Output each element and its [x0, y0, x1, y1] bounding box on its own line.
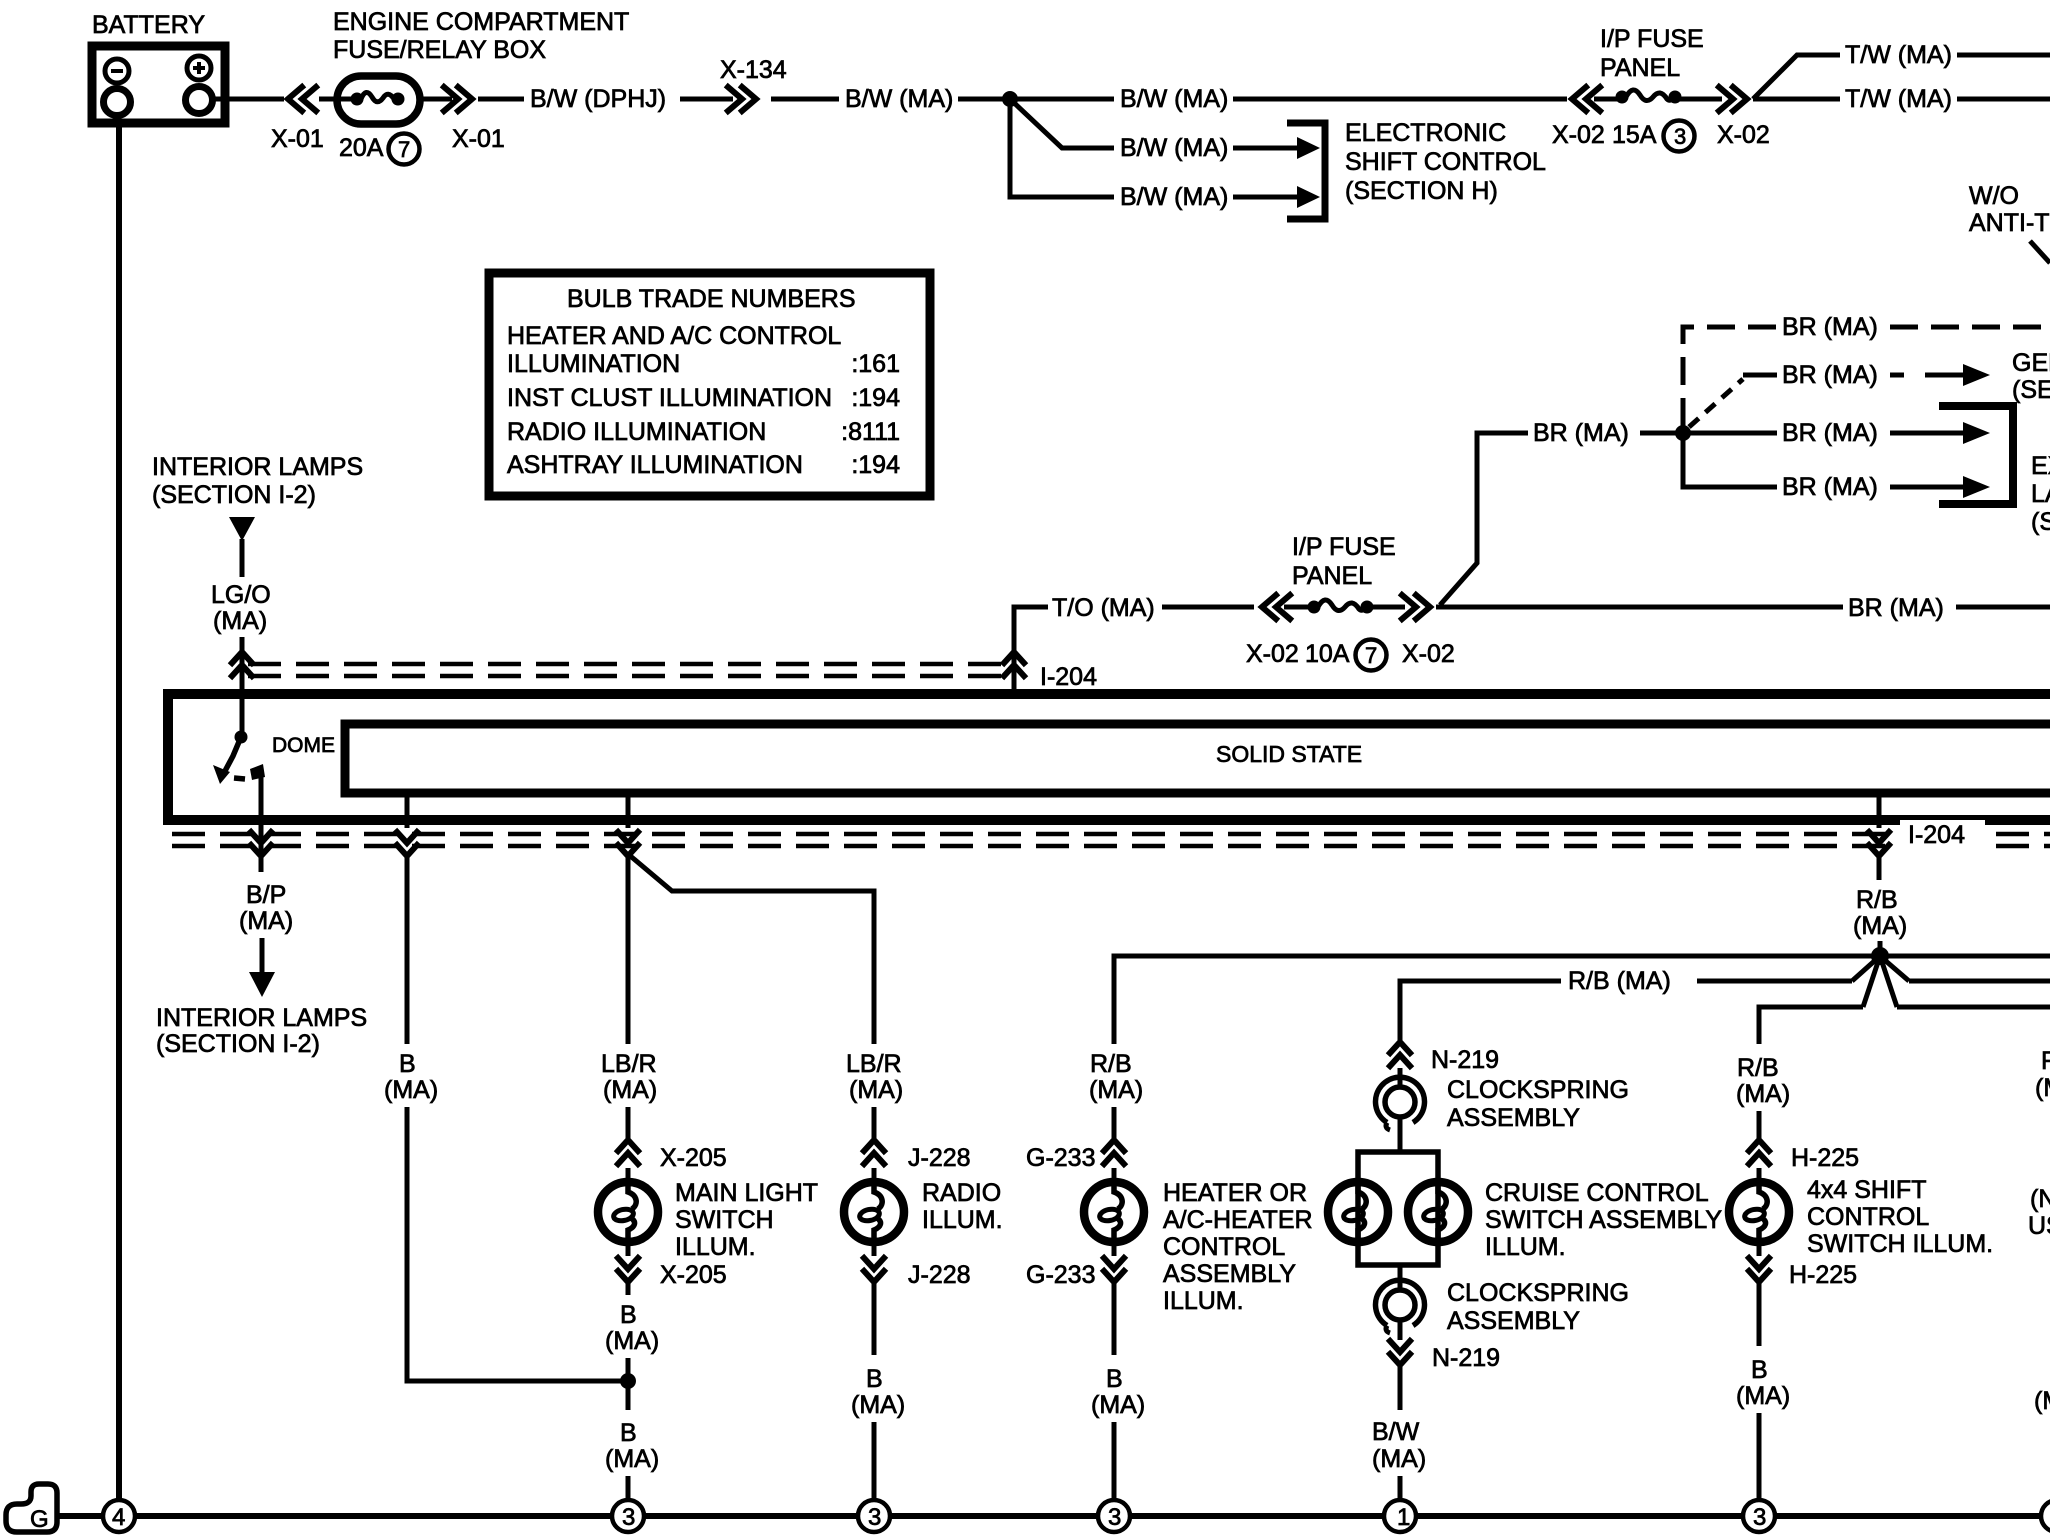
svg-text:CONTROL: CONTROL [1163, 1233, 1285, 1261]
svg-text:3: 3 [1108, 1504, 1121, 1531]
svg-text:BR (MA): BR (MA) [1782, 473, 1878, 501]
ground node 3 (4x4) [1743, 1500, 1775, 1532]
svg-text:T/W (MA): T/W (MA) [1845, 85, 1952, 113]
svg-text:PANEL: PANEL [1600, 54, 1680, 82]
svg-text:GEN: GEN [2012, 349, 2050, 377]
svg-text:DOME: DOME [272, 734, 335, 757]
interior lamp relay outer box [168, 694, 2050, 820]
svg-text:(M: (M [2034, 1387, 2050, 1415]
connector X-205 (bottom) [618, 1258, 638, 1282]
svg-text:G-233: G-233 [1026, 1261, 1095, 1289]
svg-text:B: B [620, 1419, 637, 1447]
wire T/O drop through I-204 [1012, 607, 1017, 692]
svg-text:X-01: X-01 [452, 125, 505, 153]
svg-text:J-228: J-228 [908, 1261, 971, 1289]
svg-text:N-219: N-219 [1431, 1046, 1499, 1074]
svg-text:MAIN LIGHT: MAIN LIGHT [675, 1179, 818, 1207]
wire R/B (MA) branch to 4x4 shift [1759, 1007, 1863, 1044]
connector X-01 (left) [288, 87, 316, 111]
wire B/W (MA) branch row 3 [1010, 99, 1114, 197]
wire R/B (MA) branch to cruise control [1400, 981, 1852, 1040]
cruise control column [1328, 1042, 1722, 1499]
svg-text:G: G [30, 1506, 49, 1533]
svg-text:B: B [1106, 1365, 1123, 1393]
svg-text:R/B: R/B [2041, 1047, 2050, 1075]
svg-text:I-204: I-204 [1908, 821, 1965, 849]
svg-text:(MA): (MA) [849, 1076, 903, 1104]
svg-text:3: 3 [868, 1504, 881, 1531]
wire BR (MA) riser from T/O line [1440, 433, 1528, 605]
svg-text:CLOCKSPRING: CLOCKSPRING [1447, 1279, 1629, 1307]
svg-text:FUSE/RELAY BOX: FUSE/RELAY BOX [333, 36, 546, 64]
svg-text:3: 3 [1753, 1504, 1766, 1531]
svg-text:(MA): (MA) [851, 1391, 905, 1419]
svg-text:R/B: R/B [1737, 1054, 1779, 1082]
svg-text:SWITCH ASSEMBLY: SWITCH ASSEMBLY [1485, 1206, 1722, 1234]
bulb: cruise switch left [1328, 1178, 1388, 1246]
svg-text:CONTROL: CONTROL [1807, 1203, 1929, 1231]
svg-text:T/O (MA): T/O (MA) [1052, 594, 1155, 622]
svg-text:ILLUM.: ILLUM. [1163, 1287, 1244, 1315]
arrow from interior lamps [229, 517, 255, 541]
svg-text:(MA): (MA) [1853, 912, 1907, 940]
node R/B star junction [1871, 947, 1889, 965]
bulb: radio illumination [844, 1178, 904, 1246]
clockspring assembly (lower) [1398, 1265, 1403, 1291]
svg-text:(MA): (MA) [605, 1445, 659, 1473]
svg-text:X-01: X-01 [271, 125, 324, 153]
connector X-02 (left of 15A fuse) [1572, 87, 1600, 111]
svg-text:B: B [399, 1050, 416, 1078]
svg-text:1: 1 [1397, 1504, 1410, 1531]
wire BR (MA) row 4 [1683, 440, 1777, 487]
svg-text:ASSEMBLY: ASSEMBLY [1447, 1104, 1580, 1132]
connector I-204 (bottom, double dashed) [172, 832, 2050, 837]
svg-text:J-228: J-228 [908, 1144, 971, 1172]
solid state inner box [345, 724, 2050, 793]
node BR junction [1675, 425, 1691, 441]
svg-text:H-225: H-225 [1791, 1144, 1859, 1172]
wire LB/R (MA) column (radio) [628, 854, 1003, 1499]
svg-text:X-02: X-02 [1552, 121, 1605, 149]
connector X-02 (right of 15A fuse) [1679, 97, 1722, 102]
bracket: electronic shift control [1287, 123, 1325, 219]
svg-text:(SECTION H): (SECTION H) [1345, 177, 1498, 205]
svg-text:(MA): (MA) [1089, 1076, 1143, 1104]
wire B/W (MA) branch row 2 [1010, 99, 1114, 148]
svg-text:ENGINE COMPARTMENT: ENGINE COMPARTMENT [333, 8, 629, 36]
svg-text:10A: 10A [1305, 640, 1350, 668]
svg-text:(MA): (MA) [1372, 1445, 1426, 1473]
svg-text:(MA): (MA) [239, 907, 293, 935]
ground node (right edge partial) [2041, 1500, 2050, 1532]
svg-text:B: B [620, 1301, 637, 1329]
connector G-233 (bottom) [1104, 1258, 1124, 1282]
svg-text:(MA): (MA) [384, 1076, 438, 1104]
svg-text:3: 3 [622, 1504, 635, 1531]
svg-text::8111: :8111 [841, 418, 900, 446]
svg-text:I/P FUSE: I/P FUSE [1600, 25, 1704, 53]
svg-text:SWITCH ILLUM.: SWITCH ILLUM. [1807, 1230, 1993, 1258]
svg-text:B/P: B/P [246, 881, 286, 909]
4x4 shift control column [1729, 1054, 1993, 1499]
svg-text:A/C-HEATER: A/C-HEATER [1163, 1206, 1313, 1234]
svg-text:7: 7 [398, 137, 410, 162]
svg-text:4: 4 [112, 1504, 125, 1531]
svg-text:X-205: X-205 [660, 1261, 727, 1289]
ground bus wire [57, 1513, 2050, 1519]
fuse 10A [1284, 605, 1316, 610]
svg-text:(MA): (MA) [2035, 1074, 2050, 1102]
svg-text:B/W (MA): B/W (MA) [1120, 85, 1228, 113]
svg-text:7: 7 [1365, 643, 1377, 668]
svg-text:B/W (MA): B/W (MA) [845, 85, 953, 113]
svg-text:SOLID STATE: SOLID STATE [1216, 741, 1362, 767]
wire B (MA) column from solid state [384, 793, 621, 1381]
svg-text:INTERIOR LAMPS: INTERIOR LAMPS [156, 1004, 367, 1032]
svg-text:LB/R: LB/R [601, 1050, 657, 1078]
connector J-228 (top) [864, 1140, 884, 1164]
wire BR (MA) dashed row 1 [1683, 327, 1777, 426]
svg-text:ASSEMBLY: ASSEMBLY [1447, 1307, 1580, 1335]
svg-text:(SECTION I-2): (SECTION I-2) [152, 481, 316, 509]
svg-text:ILLUM.: ILLUM. [675, 1233, 756, 1261]
wire battery negative to ground bus [116, 123, 122, 1499]
svg-text:(SECTION I-2): (SECTION I-2) [156, 1030, 320, 1058]
svg-text:15A: 15A [1612, 121, 1657, 149]
wire R/B (MA) column (heater control) [1026, 956, 2050, 1499]
bulb: main light switch illumination [598, 1178, 658, 1246]
svg-text:B: B [866, 1365, 883, 1393]
svg-text:EXT: EXT [2031, 452, 2050, 480]
svg-text:ASSEMBLY: ASSEMBLY [1163, 1260, 1296, 1288]
ground node 3 (radio) [858, 1500, 890, 1532]
svg-text:ELECTRONIC: ELECTRONIC [1345, 119, 1506, 147]
svg-text:(MA): (MA) [1736, 1382, 1790, 1410]
svg-text:(SE: (SE [2012, 376, 2050, 404]
svg-text:I-204: I-204 [1040, 663, 1097, 691]
svg-text:B/W: B/W [1372, 1418, 1420, 1446]
svg-text:R/B: R/B [1856, 886, 1898, 914]
svg-text:(NOT: (NOT [2030, 1185, 2050, 1213]
svg-text:ILLUM.: ILLUM. [1485, 1233, 1566, 1261]
svg-text:BR (MA): BR (MA) [1533, 419, 1629, 447]
svg-text:B/W (MA): B/W (MA) [1120, 183, 1228, 211]
wire B/W (DPHJ) [478, 97, 524, 102]
svg-text:H-225: H-225 [1789, 1261, 1857, 1289]
ground node 3 (main light switch) [612, 1500, 644, 1532]
svg-text:LAM: LAM [2031, 480, 2050, 508]
svg-text:HEATER OR: HEATER OR [1163, 1179, 1307, 1207]
svg-text:B: B [1751, 1356, 1768, 1384]
svg-text:BATTERY: BATTERY [92, 11, 205, 39]
svg-text:HEATER AND A/C CONTROL: HEATER AND A/C CONTROL [507, 322, 841, 350]
wire battery positive feed [213, 97, 284, 102]
svg-text::194: :194 [851, 384, 900, 412]
svg-text:(MA): (MA) [603, 1076, 657, 1104]
cruise switch housing box [1358, 1152, 1438, 1265]
svg-text:G-233: G-233 [1026, 1144, 1095, 1172]
svg-text:3: 3 [1674, 124, 1686, 149]
svg-text:ANTI-T: ANTI-T [1969, 209, 2050, 237]
svg-text:(MA): (MA) [605, 1327, 659, 1355]
wire BR (MA) to right edge [1436, 605, 1843, 610]
bulb: 4x4 shift control switch illumination [1729, 1178, 1789, 1246]
svg-text::194: :194 [851, 451, 900, 479]
svg-text:(SE: (SE [2031, 508, 2050, 536]
svg-text:CRUISE CONTROL: CRUISE CONTROL [1485, 1179, 1709, 1207]
svg-text:I/P FUSE: I/P FUSE [1292, 533, 1396, 561]
svg-text:X-02: X-02 [1246, 640, 1299, 668]
svg-text:RADIO: RADIO [922, 1179, 1001, 1207]
svg-text:INTERIOR LAMPS: INTERIOR LAMPS [152, 453, 363, 481]
bulb: heater control assembly illumination [1084, 1178, 1144, 1246]
svg-text:B/W (DPHJ): B/W (DPHJ) [530, 85, 666, 113]
svg-text:R/B: R/B [1090, 1050, 1132, 1078]
svg-text:20A: 20A [339, 134, 384, 162]
connector X-205 (top) [618, 1140, 638, 1164]
wire LB/R (MA) column (main light switch) [598, 793, 818, 1499]
wire BR (MA) dashed row 2 (to generator warning) [1689, 379, 1743, 427]
wire T/O (MA) [1014, 607, 1048, 651]
svg-text:RADIO ILLUMINATION: RADIO ILLUMINATION [507, 418, 766, 446]
svg-text:LG/O: LG/O [211, 581, 271, 609]
wire T/W (MA) upper [1753, 55, 1840, 99]
bulb: cruise switch right [1408, 1178, 1468, 1246]
connector I-204 (top, double dashed) [248, 662, 1008, 667]
svg-text:(MA): (MA) [1736, 1080, 1790, 1108]
svg-text:BR (MA): BR (MA) [1782, 313, 1878, 341]
connector X-01 (right) [420, 97, 452, 102]
wire R/B (MA) drop from solid state to star junction [1853, 793, 1985, 951]
svg-text:B/W (MA): B/W (MA) [1120, 134, 1228, 162]
svg-text:LB/R: LB/R [846, 1050, 902, 1078]
node: B/W junction [1002, 91, 1018, 107]
svg-text:ASHTRAY ILLUMINATION: ASHTRAY ILLUMINATION [507, 451, 803, 479]
svg-text:4x4 SHIFT: 4x4 SHIFT [1807, 1176, 1926, 1204]
wire BR (MA) row 3 [1690, 431, 1777, 436]
ground node 4 (battery) [103, 1500, 135, 1532]
svg-text:BR (MA): BR (MA) [1782, 361, 1878, 389]
svg-text:X-02: X-02 [1717, 121, 1770, 149]
connector X-02 (left of 10A fuse) [1262, 595, 1290, 619]
svg-text:(MA): (MA) [1091, 1391, 1145, 1419]
svg-text:INST CLUST ILLUMINATION: INST CLUST ILLUMINATION [507, 384, 832, 412]
svg-text:X-205: X-205 [660, 1144, 727, 1172]
wire dome to B/P [259, 773, 264, 872]
svg-text:R/B (MA): R/B (MA) [1568, 967, 1671, 995]
wire T/W (MA) lower [1753, 97, 1840, 102]
svg-text:BR (MA): BR (MA) [1782, 419, 1878, 447]
svg-text:CLOCKSPRING: CLOCKSPRING [1447, 1076, 1629, 1104]
svg-text:T/W (MA): T/W (MA) [1845, 41, 1952, 69]
connector X-02 (right of 10A fuse) [1371, 605, 1405, 610]
svg-text:N-219: N-219 [1432, 1344, 1500, 1372]
svg-text:BR (MA): BR (MA) [1848, 594, 1944, 622]
svg-text:ILLUM.: ILLUM. [922, 1206, 1003, 1234]
svg-text:X-02: X-02 [1402, 640, 1455, 668]
svg-text:X-134: X-134 [720, 56, 787, 84]
fuse 20A in fuse/relay box [319, 76, 420, 165]
bracket: exterior lamps [1939, 406, 2013, 504]
node B junction [620, 1373, 636, 1389]
connector G-233 (top) [1104, 1140, 1124, 1164]
svg-text:USED): USED) [2028, 1212, 2050, 1240]
clockspring assembly (upper) [1376, 1077, 1425, 1130]
ground symbol G [6, 1484, 57, 1533]
svg-text:(MA): (MA) [213, 607, 267, 635]
battery B1 [92, 11, 225, 123]
svg-text:SWITCH: SWITCH [675, 1206, 774, 1234]
bulb trade numbers box [489, 273, 930, 496]
svg-text:SHIFT CONTROL: SHIFT CONTROL [1345, 148, 1546, 176]
svg-text:W/O: W/O [1969, 182, 2019, 210]
svg-text::161: :161 [851, 350, 900, 378]
connector J-228 (bottom) [864, 1258, 884, 1282]
ground node 3 (heater) [1098, 1500, 1130, 1532]
ground node 1 (cruise) [1384, 1500, 1416, 1532]
svg-text:BULB TRADE NUMBERS: BULB TRADE NUMBERS [567, 285, 856, 313]
fuse 15A [1594, 97, 1624, 102]
svg-text:ILLUMINATION: ILLUMINATION [507, 350, 680, 378]
svg-text:PANEL: PANEL [1292, 562, 1372, 590]
dome switch [213, 731, 335, 785]
